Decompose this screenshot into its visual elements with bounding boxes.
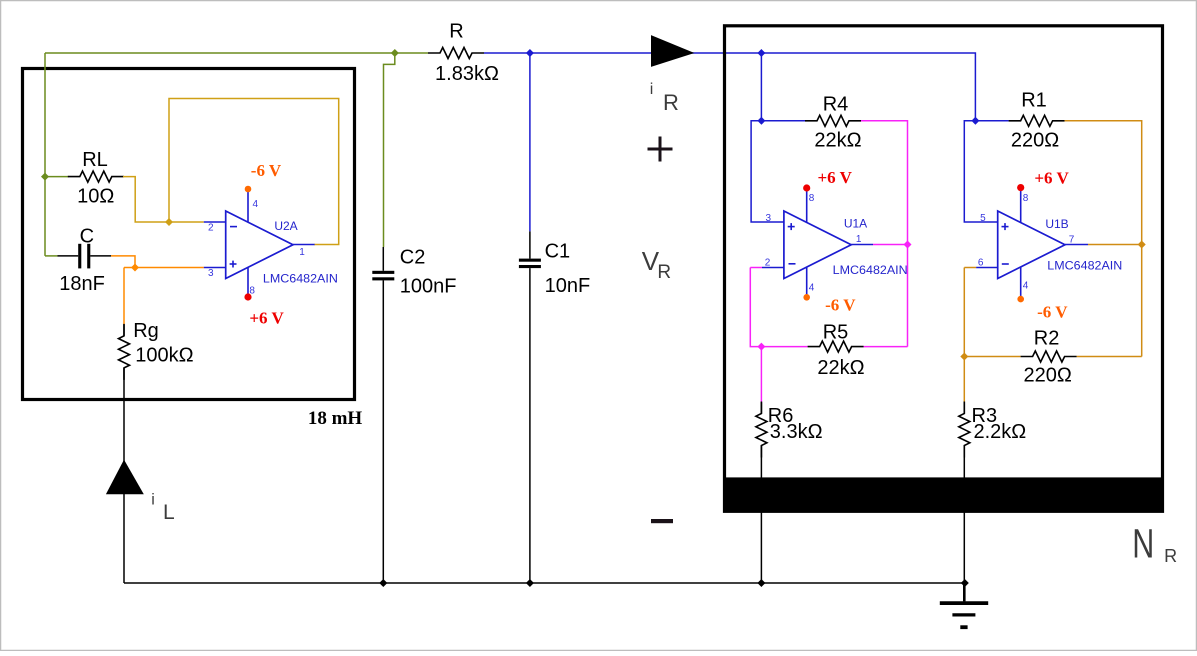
current probe arrow iR xyxy=(651,35,694,67)
svg-text:-6 V: -6 V xyxy=(825,296,856,315)
wire olive: left vertical xyxy=(44,53,46,256)
wire gold: RL right to pin 2 xyxy=(123,177,204,222)
svg-text:2: 2 xyxy=(208,223,214,234)
junction (gold, R2 left) xyxy=(960,353,968,361)
wire gold: down to R3 xyxy=(963,357,965,403)
svg-text:18 mH: 18 mH xyxy=(308,408,363,429)
capacitor C xyxy=(58,244,112,269)
svg-text:22kΩ: 22kΩ xyxy=(814,130,861,152)
junction (olive, RL row) xyxy=(41,173,49,181)
junction (bottom, R6) xyxy=(757,579,765,587)
svg-text:N: N xyxy=(1132,521,1154,567)
svg-text:1: 1 xyxy=(856,234,862,245)
wire orange: from C xyxy=(111,256,135,268)
resistor R5 xyxy=(808,341,864,352)
resistor R1 xyxy=(1009,115,1065,126)
svg-text:LMC6482AIN: LMC6482AIN xyxy=(1047,259,1122,273)
svg-text:+6 V: +6 V xyxy=(817,168,852,187)
svg-text:C: C xyxy=(80,226,94,248)
junction (magenta, output) xyxy=(904,241,912,249)
junction (blue, C1 tap) xyxy=(526,49,534,57)
svg-text:i: i xyxy=(151,492,155,509)
wire blue: top rail xyxy=(484,53,975,121)
svg-text:18nF: 18nF xyxy=(59,273,105,295)
wire gold: feedback loop xyxy=(169,99,339,245)
svg-text:5: 5 xyxy=(980,213,986,224)
junction (bottom, C1) xyxy=(526,579,534,587)
op-amp U1A xyxy=(762,188,873,297)
svg-text:R2: R2 xyxy=(1034,327,1060,349)
op-amp U1B xyxy=(976,188,1088,299)
junction (blue, R1 left) xyxy=(971,117,979,125)
svg-text:2: 2 xyxy=(765,257,771,268)
current probe arrow iL xyxy=(106,460,144,495)
svg-text:3: 3 xyxy=(766,213,772,224)
wire olive: to RL left xyxy=(45,176,69,178)
wire gold: U1B output xyxy=(1088,244,1142,246)
svg-text:3: 3 xyxy=(208,268,214,279)
resistor Rg xyxy=(123,325,125,336)
op-amp U2A xyxy=(204,189,315,297)
black bar (box N_R bottom) xyxy=(723,477,1164,511)
svg-text:10Ω: 10Ω xyxy=(77,186,114,208)
svg-text:U2A: U2A xyxy=(274,219,297,233)
svg-text:R: R xyxy=(663,90,679,115)
svg-text:-6 V: -6 V xyxy=(251,161,282,180)
svg-text:R1: R1 xyxy=(1021,90,1047,112)
wire magenta: down to R6 xyxy=(760,347,762,403)
svg-text:6: 6 xyxy=(978,258,984,269)
wire orange: to pin 3 xyxy=(124,267,204,269)
wire gold: R1 right down to R2 xyxy=(1065,121,1142,357)
wire magenta: down to R5 left xyxy=(750,268,807,347)
svg-text:4: 4 xyxy=(253,199,259,210)
svg-text:R4: R4 xyxy=(823,94,849,116)
svg-text:100kΩ: 100kΩ xyxy=(135,345,193,367)
wire: bottom rail xyxy=(124,582,965,584)
svg-text:R: R xyxy=(449,21,463,43)
minus sign (V_R polarity) xyxy=(651,519,673,523)
svg-text:+6 V: +6 V xyxy=(1034,168,1069,187)
wire magenta: R4 right down to R5 xyxy=(861,121,908,347)
svg-text:U1B: U1B xyxy=(1045,217,1068,231)
wire blue: to R4 xyxy=(761,120,805,122)
wire gold: pin 6 stub xyxy=(964,267,976,269)
svg-text:C1: C1 xyxy=(545,241,571,263)
wire blue: to R1 xyxy=(975,120,1008,122)
svg-text:220Ω: 220Ω xyxy=(1011,130,1059,152)
svg-text:LMC6482AIN: LMC6482AIN xyxy=(263,272,338,286)
junction (bottom, C2) xyxy=(379,579,387,587)
svg-text:10nF: 10nF xyxy=(545,275,591,297)
wire magenta: R5 right xyxy=(864,346,908,348)
capacitor C1 xyxy=(519,231,541,583)
wire: Rg down to bottom rail xyxy=(123,368,125,583)
wire olive: to C left xyxy=(45,255,58,257)
wire olive: branch down to C2 xyxy=(384,53,395,247)
svg-text:7: 7 xyxy=(1069,235,1075,246)
junction (gold, output) xyxy=(1138,241,1146,249)
wire: R6 down to bottom rail xyxy=(760,446,762,584)
subcircuit box N_R xyxy=(725,26,1163,512)
wire olive: top horizontal to R xyxy=(45,52,428,54)
wire blue: to U1A pin 3 xyxy=(751,121,784,222)
svg-text:R: R xyxy=(657,262,671,283)
svg-text:2.2kΩ: 2.2kΩ xyxy=(974,421,1027,443)
wire orange: down to Rg xyxy=(123,268,125,325)
resistor R6 xyxy=(760,402,762,413)
resistor R xyxy=(428,48,484,59)
svg-text:4: 4 xyxy=(1023,280,1029,291)
ground xyxy=(940,583,988,627)
svg-text:-6 V: -6 V xyxy=(1037,302,1068,321)
plus sign (V_R polarity) xyxy=(648,137,673,162)
wire gold: down to R2 left xyxy=(964,268,1020,357)
power terminal -6V (U1B pin 4) xyxy=(1017,296,1024,303)
svg-text:LMC6482AIN: LMC6482AIN xyxy=(833,263,908,277)
svg-text:3.3kΩ: 3.3kΩ xyxy=(770,421,823,443)
wire: R3 down to ground xyxy=(963,446,965,584)
junction (bottom, ground) xyxy=(961,579,969,587)
resistor R3 xyxy=(963,402,965,413)
svg-text:R5: R5 xyxy=(823,322,849,344)
resistor RL xyxy=(68,171,124,182)
wire blue: down to R4 row xyxy=(760,53,762,121)
resistor R4 xyxy=(805,115,861,126)
wire magenta: pin 2 stub xyxy=(750,267,762,269)
junction (blue, R4 left) xyxy=(757,117,765,125)
svg-text:220Ω: 220Ω xyxy=(1024,365,1072,387)
junction (orange) xyxy=(131,264,139,272)
svg-text:22kΩ: 22kΩ xyxy=(817,357,864,379)
svg-text:Rg: Rg xyxy=(133,320,159,342)
wire gold: R2 right xyxy=(1077,356,1142,358)
svg-text:U1A: U1A xyxy=(844,217,867,231)
junction (magenta, R5 left) xyxy=(757,343,765,351)
power terminal -6V (U1A pin 4) xyxy=(803,294,810,301)
junction (olive, top wire) xyxy=(391,49,399,57)
wire blue: down to C1 xyxy=(529,53,531,231)
svg-text:1.83kΩ: 1.83kΩ xyxy=(435,63,499,85)
svg-text:4: 4 xyxy=(809,283,815,294)
svg-text:RL: RL xyxy=(82,149,108,171)
svg-text:+6 V: +6 V xyxy=(249,309,284,328)
wire blue: to U1B pin 5 xyxy=(964,121,997,222)
svg-text:8: 8 xyxy=(809,193,815,204)
power terminal +6V (U1A pin 8) xyxy=(803,184,810,191)
svg-text:100nF: 100nF xyxy=(400,276,457,298)
resistor R2 xyxy=(1021,351,1077,362)
junction (blue, box entry) xyxy=(757,49,765,57)
power terminal +6V (U2A pin 8) xyxy=(244,293,251,300)
svg-text:1: 1 xyxy=(299,247,305,258)
svg-text:L: L xyxy=(163,501,175,524)
junction (gold) xyxy=(165,218,173,226)
power terminal +6V (U1B pin 8) xyxy=(1017,184,1024,191)
svg-text:C2: C2 xyxy=(400,247,426,269)
subcircuit box (18 mH equivalent inductor block) xyxy=(23,69,355,400)
wire magenta: U1A output xyxy=(873,244,908,246)
capacitor C2 xyxy=(372,247,394,583)
svg-text:R: R xyxy=(1164,546,1177,566)
power terminal -6V (U2A pin 4) xyxy=(245,186,252,193)
svg-text:i: i xyxy=(650,81,654,98)
svg-text:8: 8 xyxy=(1023,193,1029,204)
